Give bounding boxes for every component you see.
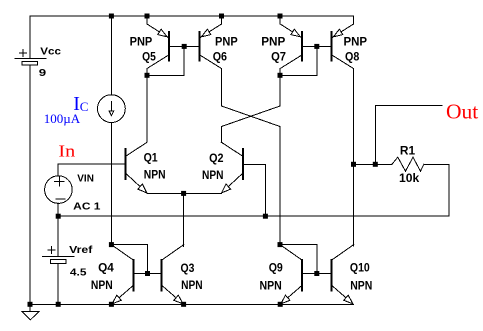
svg-text:Q8: Q8 [345, 50, 360, 64]
svg-text:Vcc: Vcc [40, 46, 61, 58]
svg-text:VIN: VIN [77, 173, 94, 185]
svg-text:4.5: 4.5 [70, 267, 87, 279]
svg-text:PNP: PNP [261, 34, 285, 48]
svg-text:Q10: Q10 [350, 260, 370, 274]
svg-text:NPN: NPN [202, 168, 224, 182]
svg-text:R1: R1 [400, 143, 416, 157]
svg-text:Q7: Q7 [271, 50, 286, 64]
svg-text:NPN: NPN [91, 278, 113, 292]
svg-text:9: 9 [39, 67, 47, 79]
svg-text:100µA: 100µA [44, 111, 81, 126]
svg-text:Out: Out [446, 100, 478, 124]
svg-text:NPN: NPN [144, 168, 166, 182]
svg-text:PNP: PNP [215, 35, 238, 49]
svg-text:Q4: Q4 [98, 261, 114, 275]
svg-text:NPN: NPN [350, 278, 372, 292]
svg-text:Q6: Q6 [213, 50, 228, 64]
svg-text:Q2: Q2 [209, 151, 224, 165]
svg-text:Q1: Q1 [144, 151, 158, 165]
svg-text:Q5: Q5 [142, 50, 156, 64]
svg-text:10k: 10k [399, 171, 420, 185]
svg-text:PNP: PNP [130, 35, 153, 49]
svg-text:In: In [58, 141, 75, 160]
svg-text:Q9: Q9 [269, 260, 283, 274]
svg-text:AC 1: AC 1 [73, 200, 100, 212]
svg-text:Vref: Vref [69, 244, 93, 256]
svg-text:Q3: Q3 [181, 261, 195, 275]
svg-text:PNP: PNP [344, 34, 368, 48]
svg-text:NPN: NPN [260, 278, 282, 292]
svg-text:NPN: NPN [181, 278, 203, 292]
svg-text:C: C [80, 99, 89, 114]
